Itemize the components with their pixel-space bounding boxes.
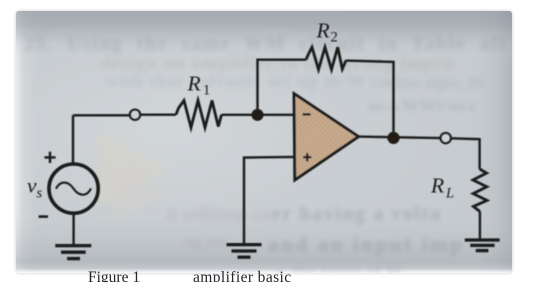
bleed-through text middle row A left	[166, 204, 271, 226]
bleed-through text row 1	[24, 33, 507, 56]
source vs circle	[49, 164, 98, 213]
wire: op-amp output	[359, 137, 441, 139]
bleed-through text row C	[276, 261, 403, 282]
bleed-through squiggle right upper	[388, 73, 483, 93]
bleed-through squiggle right lower	[368, 96, 477, 116]
bleed-through text row B right	[268, 232, 464, 257]
svg-text:s: s	[37, 186, 43, 202]
op-amp U1	[294, 94, 359, 180]
svg-text:1: 1	[203, 83, 210, 99]
wire: R1 to inverting node	[222, 114, 295, 116]
node: input terminal open circle	[130, 110, 140, 120]
node B: output junction dot	[387, 132, 399, 144]
source plus sign	[44, 152, 55, 163]
wire: source riser	[72, 115, 74, 163]
ground (right)	[465, 240, 500, 251]
bleed-through watermark triangle	[86, 126, 206, 231]
wire: source to ground	[72, 213, 74, 245]
svg-text:v: v	[27, 174, 37, 198]
ground (middle)	[227, 245, 262, 258]
node: output terminal open circle	[441, 133, 451, 143]
label vs	[27, 174, 43, 202]
wire: terminal to RL corner	[451, 138, 480, 169]
wire: feedback top right and drop to output	[346, 61, 394, 138]
label R2	[316, 18, 338, 45]
caption: amplifier basic	[193, 269, 292, 282]
svg-text:R: R	[316, 18, 330, 42]
svg-text:L: L	[445, 186, 454, 202]
bleed-through text row B left	[183, 231, 227, 253]
svg-text:R: R	[187, 71, 201, 95]
op-amp non-inverting pin marker	[303, 153, 311, 161]
bleed-through text row A right	[272, 203, 442, 226]
svg-text:2: 2	[331, 30, 338, 46]
source minus sign	[39, 215, 48, 218]
op-amp inverting pin marker	[303, 113, 311, 115]
bleed-through text row 2	[100, 53, 455, 75]
wire: terminal to R1	[140, 113, 176, 115]
resistor RL	[473, 169, 487, 212]
wire: input left horizontal	[73, 114, 130, 116]
label R1	[187, 71, 211, 98]
wire: RL to ground	[479, 212, 481, 240]
wire: non-inverting input to ground corner	[244, 157, 295, 244]
node A: inverting input junction dot	[252, 109, 264, 121]
ground (left)	[55, 246, 91, 259]
bleed-through text row 3	[106, 71, 391, 92]
caption: Figure 1	[88, 269, 140, 282]
resistor R2	[306, 47, 346, 69]
source vs sine wave	[56, 183, 91, 195]
svg-text:R: R	[430, 174, 444, 198]
label RL	[430, 174, 454, 202]
wire: feedback riser left	[258, 60, 307, 115]
resistor R1	[176, 101, 222, 128]
